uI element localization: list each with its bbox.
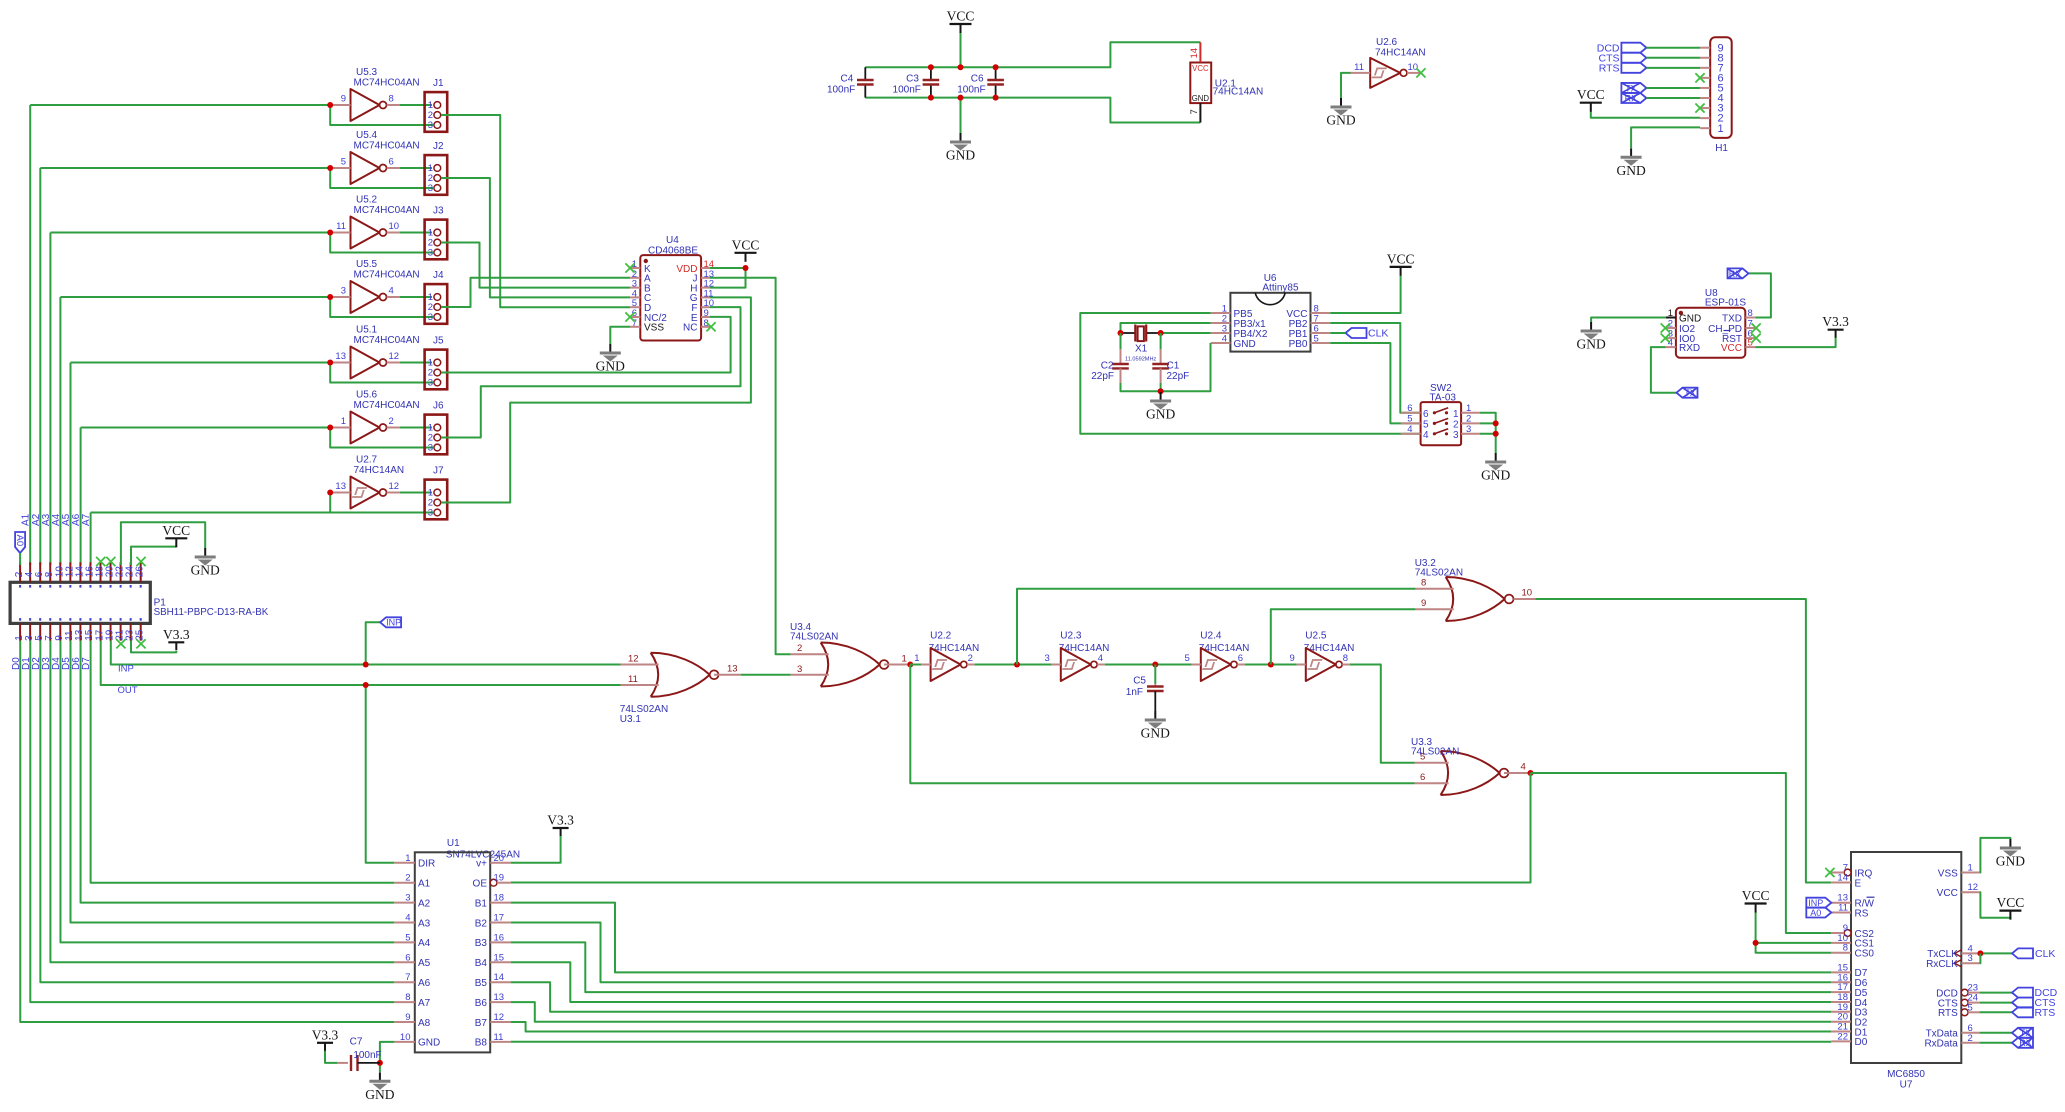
svg-text:3: 3	[428, 378, 433, 389]
junction SW2 pin2	[1493, 420, 1499, 426]
svg-text:3: 3	[428, 443, 433, 454]
wire net D7 from P1 to U1 A1	[91, 641, 395, 883]
svg-text:11: 11	[494, 1032, 504, 1043]
wire H1 pin 4	[1646, 97, 1700, 99]
wire U6 PB1 to CLK flag	[1330, 332, 1345, 334]
capacitor C3 100nF	[893, 74, 940, 96]
svg-text:D2: D2	[31, 657, 42, 670]
svg-text:A7: A7	[418, 998, 431, 1009]
svg-text:X1: X1	[1135, 344, 1148, 355]
junction U4 VDD	[743, 265, 749, 271]
svg-text:6: 6	[1238, 653, 1243, 664]
svg-text:17: 17	[494, 913, 505, 924]
wire U4 VSS to GND	[610, 327, 630, 344]
VCC symbol at H1	[1577, 87, 1605, 112]
flag TX at U8 RXD	[1677, 388, 1698, 398]
wire feedback to U3.2 pin8	[1017, 589, 1416, 665]
svg-text:VCC: VCC	[1742, 888, 1770, 903]
svg-text:A0: A0	[1810, 908, 1821, 918]
wire U2.7 output to J7 pin1	[400, 492, 432, 494]
wire input net A2 to U5.4	[40, 167, 330, 169]
wire H1 pin2 to VCC	[1591, 111, 1700, 118]
connector H1	[1700, 37, 1732, 154]
svg-text:VSS: VSS	[1938, 868, 1958, 879]
wire U1 B4 to U7 D4	[511, 962, 1832, 1002]
no-connect X H1 pin3	[1695, 103, 1704, 112]
inverter U2.5 74HC14AN	[1290, 631, 1355, 682]
svg-text:TX: TX	[1625, 83, 1637, 93]
junction bottom rail	[928, 95, 934, 101]
junction at U2.7 input	[327, 490, 333, 496]
wire V3.3 to C7	[325, 1050, 337, 1063]
flag DCD at H1 pin 9	[1621, 43, 1646, 53]
svg-text:GND: GND	[1576, 337, 1605, 352]
svg-text:J5: J5	[433, 336, 444, 347]
svg-text:14: 14	[1837, 873, 1848, 884]
inverter U5.6 (MC74HC04AN)	[330, 390, 419, 444]
wire U4 pin13 J to U3.4 pin2	[710, 278, 791, 654]
svg-text:v+: v+	[476, 859, 487, 870]
wire U1 v+ to V3.3	[511, 836, 561, 863]
svg-text:11.0592MHz: 11.0592MHz	[1125, 357, 1157, 363]
ground at SW2	[1481, 453, 1510, 483]
wire net D2 from P1 to U1 A6	[40, 641, 394, 983]
wire C5 lead	[1154, 665, 1156, 684]
wire net D3 from P1 to U1 A5	[50, 641, 394, 963]
wire U6 PB0 to SW2 pin5	[1330, 343, 1420, 423]
no-connect X P1 pin 21	[116, 639, 125, 648]
connector J1	[425, 78, 448, 132]
svg-text:13: 13	[335, 351, 346, 362]
power block U2.1 74HC14AN	[1189, 42, 1263, 122]
svg-text:GND: GND	[1326, 113, 1355, 128]
svg-text:12: 12	[1968, 882, 1979, 893]
junction top rail	[928, 64, 934, 70]
svg-text:VCC: VCC	[1577, 87, 1605, 102]
svg-text:1: 1	[341, 416, 346, 427]
flag A0 at P1 pin 2	[15, 532, 25, 553]
svg-text:V3.3: V3.3	[547, 813, 574, 828]
IC U8 ESP-01S	[1666, 288, 1756, 358]
wire U3.3 output to U1 OE	[511, 773, 1531, 883]
wire GND stem	[960, 98, 962, 133]
wire C2 lead down	[1120, 333, 1122, 349]
wire X1 row	[1121, 332, 1136, 334]
svg-text:9: 9	[1290, 653, 1295, 664]
svg-text:J2: J2	[433, 141, 444, 152]
wire U8 TXD to RX flag	[1749, 273, 1771, 317]
svg-text:4: 4	[1521, 762, 1526, 773]
wire U7 RxData to RX flag	[1980, 1042, 2012, 1044]
svg-text:RxData: RxData	[1924, 1039, 1958, 1050]
svg-text:1: 1	[405, 853, 410, 864]
svg-text:9: 9	[1421, 598, 1426, 609]
no-connect X U2.6 output	[1416, 68, 1425, 77]
flag CTS at U7	[2012, 998, 2033, 1008]
svg-text:11: 11	[628, 674, 638, 685]
svg-text:V3.3: V3.3	[1822, 314, 1849, 329]
V3.3 symbol at U1	[547, 813, 574, 837]
flag RX at U8 TXD	[1728, 268, 1749, 278]
wire U6 VCC to VCC symbol	[1330, 276, 1400, 313]
svg-text:6: 6	[405, 952, 410, 963]
wire P1 pin2 to A0 flag	[19, 553, 21, 565]
junction at U5.3 input	[327, 102, 333, 108]
svg-text:4: 4	[405, 913, 410, 924]
wire U2.3 output to C5 node	[1105, 664, 1192, 666]
junction U3.4 output	[907, 662, 913, 668]
svg-text:TXD: TXD	[1722, 313, 1742, 324]
svg-text:3: 3	[1466, 424, 1471, 435]
inverter U2.2 74HC14AN	[914, 631, 979, 682]
svg-text:GND: GND	[1616, 163, 1645, 178]
connector J6	[425, 401, 448, 455]
junction bottom rail	[993, 95, 999, 101]
svg-text:11: 11	[336, 221, 346, 232]
svg-text:C2: C2	[1101, 361, 1114, 372]
wire VCC rail top	[865, 42, 1200, 67]
wire C6 leads	[995, 67, 997, 80]
wire U8 RXD to TX flag	[1651, 347, 1677, 393]
svg-text:B1: B1	[475, 898, 488, 909]
inverter U5.3 (MC74HC04AN)	[330, 67, 419, 121]
svg-text:U5.6: U5.6	[356, 390, 378, 401]
IC U4 CD4068BE	[630, 235, 714, 341]
wire U1 B5 to U7 D3	[511, 982, 1832, 1012]
svg-text:A6: A6	[418, 978, 431, 989]
wire H1 pin 8	[1646, 57, 1700, 59]
svg-text:74HC14AN: 74HC14AN	[354, 465, 405, 476]
wire SW2 pin3	[1480, 433, 1496, 435]
svg-text:22: 22	[1837, 1031, 1848, 1042]
inverter U5.1 (MC74HC04AN)	[330, 325, 419, 379]
wire U2.6 input to GND	[1341, 73, 1351, 98]
svg-text:8: 8	[1748, 308, 1753, 319]
svg-text:18: 18	[494, 893, 505, 904]
wire U3.3 output to U7 CS2	[1531, 773, 1832, 933]
wire SW2 pin2	[1480, 422, 1496, 424]
svg-text:CS0: CS0	[1855, 949, 1875, 960]
NOR gate U3.2 74LS02AN	[1415, 558, 1536, 621]
svg-text:RX: RX	[2019, 1038, 2032, 1048]
NOR gate U3.1 74LS02AN	[620, 653, 741, 725]
junction at U5.2 input	[327, 230, 333, 236]
wire SW2 pin1 to GND	[1480, 413, 1496, 453]
wire U5.6 output to J6 pin1	[400, 427, 432, 429]
svg-text:C5: C5	[1133, 676, 1146, 687]
svg-text:6: 6	[1423, 409, 1429, 420]
svg-text:6: 6	[1420, 772, 1425, 783]
svg-text:1: 1	[902, 654, 907, 665]
svg-text:DIR: DIR	[418, 859, 435, 870]
wire input net A3 to U5.2	[50, 232, 330, 234]
svg-text:C7: C7	[350, 1037, 363, 1048]
svg-text:GND: GND	[596, 359, 625, 374]
no-connect X U8 RST	[1752, 334, 1761, 343]
svg-text:SBH11-PBPC-D13-RA-BK: SBH11-PBPC-D13-RA-BK	[154, 607, 269, 618]
wire U1 B8 to U7 D0	[511, 1041, 1832, 1043]
svg-text:GND: GND	[1192, 94, 1210, 103]
flag RX at H1 pin 4	[1621, 93, 1646, 103]
svg-text:B6: B6	[475, 998, 488, 1009]
junction at U5.4 input	[327, 165, 333, 171]
wire net A3 vertical from P1	[49, 233, 51, 566]
wire J6 pin2 to U4 pin10 F	[441, 307, 741, 437]
svg-text:5: 5	[341, 157, 346, 168]
VCC symbol at U4	[732, 237, 760, 261]
wire U5.5 output to J4 pin1	[400, 296, 432, 298]
ground at P1 pin22	[191, 548, 220, 578]
ground at U2.6 input	[1326, 98, 1355, 128]
svg-text:3: 3	[428, 312, 433, 323]
junction VCC CS1/CS0	[1753, 940, 1759, 946]
svg-text:U5.2: U5.2	[356, 195, 378, 206]
ground at U1	[365, 1072, 394, 1102]
connector J5	[425, 336, 448, 390]
svg-text:MC74HC04AN: MC74HC04AN	[354, 270, 420, 281]
svg-text:NC: NC	[683, 323, 697, 334]
svg-text:74LS02AN: 74LS02AN	[1411, 747, 1459, 758]
wire net A5 vertical from P1	[70, 363, 72, 566]
no-connect X U4 pin8	[706, 322, 715, 331]
svg-text:3: 3	[428, 248, 433, 259]
svg-text:VCC: VCC	[947, 9, 975, 24]
svg-text:4: 4	[1407, 424, 1412, 435]
svg-text:6: 6	[389, 157, 394, 168]
flag RTS at U7	[2012, 1007, 2033, 1017]
svg-text:U5.4: U5.4	[356, 130, 378, 141]
NOR gate U3.3 74LS02AN	[1411, 737, 1531, 795]
svg-text:J4: J4	[433, 270, 444, 281]
wire U2.4 output	[1245, 664, 1297, 666]
wire U7 DCD	[1980, 992, 2012, 994]
svg-text:4: 4	[1668, 338, 1673, 349]
wire U7 CS0 to VCC	[1756, 943, 1832, 953]
wire U8 GND to ground	[1591, 318, 1666, 323]
no-connect X P1 pin 18	[96, 557, 105, 566]
connector J7	[425, 466, 448, 520]
wire U5.1 input to J5 pin3	[330, 363, 433, 383]
flag INP at U7 R/W	[1806, 898, 1831, 908]
no-connect X U7 IRQ	[1825, 868, 1834, 877]
junction C5 node	[1152, 662, 1158, 668]
svg-text:5: 5	[1968, 1002, 1973, 1013]
svg-text:1nF: 1nF	[1126, 687, 1143, 698]
wire U1 B6 to U7 D2	[511, 1002, 1832, 1022]
svg-text:1: 1	[914, 653, 919, 664]
svg-text:8: 8	[1421, 578, 1426, 589]
svg-text:9: 9	[341, 94, 346, 105]
svg-text:PB0: PB0	[1289, 339, 1308, 350]
VCC symbol at U7 pin12	[1997, 895, 2025, 920]
wire net D5 from P1 to U1 A3	[71, 641, 395, 923]
svg-text:9: 9	[405, 1012, 410, 1023]
wire U2.5 output to U3.3 pin5	[1350, 665, 1415, 763]
svg-text:V3.3: V3.3	[163, 627, 190, 642]
svg-text:74LS02AN: 74LS02AN	[790, 632, 838, 643]
svg-text:1: 1	[1718, 123, 1724, 135]
ground at U8	[1576, 322, 1605, 352]
svg-text:8: 8	[1843, 943, 1848, 954]
svg-text:U5.3: U5.3	[356, 67, 378, 78]
svg-text:V3.3: V3.3	[312, 1027, 339, 1042]
svg-text:OUT: OUT	[118, 685, 138, 696]
svg-text:74LS02AN: 74LS02AN	[1415, 568, 1463, 579]
svg-text:100nF: 100nF	[827, 85, 855, 96]
wire U5.4 input to J2 pin3	[330, 168, 433, 188]
svg-text:GND: GND	[1234, 339, 1256, 350]
svg-text:C3: C3	[906, 74, 919, 85]
wire C1 to rail	[1160, 383, 1162, 391]
svg-text:U2.2: U2.2	[930, 631, 952, 642]
svg-text:GND: GND	[191, 563, 220, 578]
flag CTS at H1 pin 8	[1621, 53, 1646, 63]
svg-text:10: 10	[1522, 588, 1533, 599]
capacitor C1 22pF	[1152, 349, 1189, 383]
svg-text:100nF: 100nF	[893, 85, 921, 96]
svg-text:TX: TX	[2020, 1028, 2032, 1038]
flag RTS at H1 pin 7	[1621, 63, 1646, 73]
V3.3 symbol near P1	[163, 627, 190, 651]
V3.3 symbol at C7	[312, 1027, 339, 1051]
svg-text:5: 5	[1423, 419, 1429, 430]
wire H1 pin 9	[1646, 47, 1700, 49]
svg-text:4: 4	[1098, 653, 1103, 664]
no-connect X U8 IO0	[1661, 334, 1670, 343]
connector J4	[425, 270, 448, 324]
svg-text:J6: J6	[433, 401, 444, 412]
wire VCC to U4 pin12 H	[710, 268, 746, 288]
svg-text:D1: D1	[21, 657, 32, 670]
junction TxCLK/RxCLK	[1977, 950, 1983, 956]
svg-text:U2.6: U2.6	[1376, 37, 1398, 48]
wire J7 pin2 to U4 pin11 G	[441, 297, 751, 502]
VCC symbol above cap bank	[947, 9, 975, 34]
svg-text:14: 14	[1189, 48, 1200, 59]
svg-text:A3: A3	[418, 918, 431, 929]
svg-text:A5: A5	[418, 958, 431, 969]
svg-text:8: 8	[1343, 653, 1348, 664]
svg-text:D6: D6	[71, 657, 82, 670]
svg-text:INP: INP	[386, 618, 401, 628]
ground at C5	[1141, 711, 1170, 741]
ground at crystal	[1146, 392, 1175, 422]
svg-text:U2.4: U2.4	[1200, 631, 1222, 642]
wire U7 CS1 to VCC	[1756, 912, 1832, 943]
switch SW2 TA-03	[1401, 383, 1480, 445]
wire INP flag drop	[366, 622, 380, 664]
wire net A1 vertical from P1	[29, 105, 31, 565]
wire VCC stem	[960, 33, 962, 67]
svg-text:GND: GND	[1679, 313, 1701, 324]
junction X1 right	[1158, 330, 1164, 336]
wire U1 B1 to U7 D7	[511, 903, 1832, 973]
svg-text:A2: A2	[418, 898, 431, 909]
svg-text:B8: B8	[475, 1038, 488, 1049]
wire U1 GND to ground/C7	[380, 1042, 394, 1072]
svg-text:2: 2	[797, 643, 802, 654]
svg-text:14: 14	[494, 972, 505, 983]
wire net A2 vertical from P1	[39, 168, 41, 565]
junction at U5.6 input	[327, 425, 333, 431]
svg-text:3: 3	[1968, 953, 1973, 964]
svg-text:MC74HC04AN: MC74HC04AN	[354, 400, 420, 411]
wire U7 VSS to GND	[1980, 838, 2011, 873]
svg-text:B5: B5	[475, 978, 488, 989]
V3.3 symbol at U8	[1822, 314, 1849, 338]
wire net A4 vertical from P1	[59, 297, 61, 565]
wire net D1 from P1 to U1 A7	[30, 641, 394, 1003]
VCC symbol near P1	[162, 523, 190, 548]
svg-text:1: 1	[1466, 403, 1471, 414]
wire U1 B7 to U7 D1	[511, 1022, 1832, 1032]
svg-text:4: 4	[1423, 430, 1429, 441]
svg-text:RxCLK: RxCLK	[1926, 959, 1958, 970]
wire J1 pin2 to U4 pin5 D	[441, 115, 630, 307]
wire U4 VDD to VCC	[710, 267, 746, 269]
wire P1 pin22 to GND	[121, 522, 205, 565]
svg-text:VCC: VCC	[1937, 888, 1958, 899]
svg-text:1: 1	[1453, 409, 1459, 420]
svg-text:2: 2	[1453, 419, 1459, 430]
svg-text:RS: RS	[1855, 908, 1869, 919]
no-connect X H1 pin6	[1695, 73, 1704, 82]
capacitor C5 1nF	[1126, 676, 1164, 712]
junction top rail	[993, 64, 999, 70]
wire U3.4 output to U3.3 pin6	[910, 665, 1414, 784]
svg-text:A8: A8	[418, 1018, 431, 1029]
flag TX at H1 pin 5	[1621, 83, 1646, 93]
IC U6 Attiny85	[1211, 273, 1331, 352]
wire net OUT from P1 pin17 to U3.1 pin11	[101, 641, 621, 686]
svg-text:5: 5	[1185, 653, 1190, 664]
wire U7 TxCLK to CLK flag	[1980, 952, 2012, 954]
crystal X1 11.0592MHz	[1125, 325, 1157, 363]
svg-text:C4: C4	[841, 74, 854, 85]
svg-text:2: 2	[1466, 413, 1471, 424]
svg-text:VCC: VCC	[732, 237, 760, 252]
svg-text:13: 13	[335, 481, 346, 492]
svg-text:3: 3	[428, 508, 433, 519]
wire GND rail bottom	[865, 98, 1200, 123]
wire U3.1 output to U3.4 pin3	[741, 674, 791, 676]
wire U5.6 input to J6 pin3	[330, 428, 433, 448]
svg-text:U4: U4	[666, 235, 679, 246]
svg-text:MC74HC04AN: MC74HC04AN	[354, 141, 420, 152]
svg-text:3: 3	[1045, 653, 1050, 664]
wire J3 pin2 to U4 pin3 B	[441, 243, 630, 288]
flag CLK at U6 PB1	[1346, 328, 1367, 338]
wire net INP from P1 pin19 to U3.1 pin12	[111, 641, 621, 665]
junction GND rail	[958, 95, 964, 101]
svg-text:100nF: 100nF	[957, 85, 985, 96]
svg-text:22pF: 22pF	[1091, 371, 1114, 382]
capacitor C6 100nF	[957, 74, 1004, 96]
svg-text:20: 20	[494, 853, 505, 864]
svg-text:1: 1	[1668, 308, 1673, 319]
svg-text:D3: D3	[41, 657, 52, 670]
svg-text:U1: U1	[447, 838, 460, 849]
svg-text:GND: GND	[1996, 854, 2025, 869]
capacitor C4 100nF	[827, 74, 874, 96]
wire net D4 from P1 to U1 A4	[60, 641, 394, 943]
connector P1 SBH11-PBPC-D13-RA-BK	[10, 562, 269, 641]
svg-text:15: 15	[494, 952, 505, 963]
NOR gate U3.4 74LS02AN	[790, 622, 910, 687]
wire net D0 from P1 to U1 A8	[20, 641, 394, 1023]
flag INP near P1	[380, 617, 401, 627]
junction U2.2 output	[1014, 662, 1020, 668]
